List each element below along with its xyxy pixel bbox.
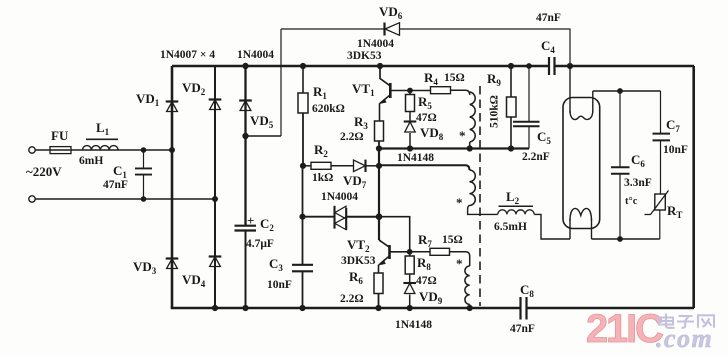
diode VD4 [209,255,222,257]
svg-text:*: * [456,195,463,210]
capacitor C1 [143,150,145,199]
diac trigger diode [333,206,335,229]
svg-text:C7: C7 [666,117,680,134]
svg-text:3DK53: 3DK53 [347,50,382,62]
svg-text:L1: L1 [96,120,110,137]
wire bridge right branch [214,66,216,308]
svg-text:6.5mH: 6.5mH [494,221,527,233]
wire top bypass left [281,28,385,30]
svg-text:47nF: 47nF [103,179,128,191]
resistor R9 [510,66,512,97]
transistor VT1 [377,63,382,68]
svg-text:1N4004: 1N4004 [237,49,274,61]
diode VD7 [354,160,366,172]
svg-text:2.2nF: 2.2nF [522,151,550,163]
rail bottom left [171,307,520,310]
svg-text:6mH: 6mH [79,155,103,167]
transformer winding W2 [465,266,470,304]
svg-text:510kΩ: 510kΩ [489,95,501,128]
svg-text:VD3: VD3 [133,259,157,276]
svg-text:1N4148: 1N4148 [397,152,434,164]
capacitor C5 [528,66,530,122]
svg-text:3.3nF: 3.3nF [624,177,652,189]
diode VD2 [209,98,222,100]
wire DIAC row [303,216,335,218]
rail top main [172,65,548,68]
svg-text:21IC: 21IC [586,307,663,351]
wire x302 vertical (R1/C3 branch) [302,166,304,265]
svg-text:VD2: VD2 [182,80,206,97]
diode VD9 [403,282,416,284]
svg-text:620kΩ: 620kΩ [312,103,345,115]
resistor R5 [409,91,411,95]
transformer core dashed line [479,86,481,306]
resistor R4 [410,90,431,92]
resistor R3 [375,121,384,141]
resistor R7 [407,249,412,254]
svg-text:C1: C1 [113,163,127,180]
rail bottom right [528,307,695,309]
svg-text:1N4004: 1N4004 [357,38,394,50]
svg-text:1kΩ: 1kΩ [312,172,333,184]
svg-text:C4: C4 [541,38,555,55]
diode VD1 [166,100,179,102]
diode VD6 [383,23,385,36]
svg-text:*: * [456,256,463,271]
svg-text:47Ω: 47Ω [416,112,437,124]
wire riser to top bypass [280,29,282,136]
svg-text:R2: R2 [314,142,328,159]
svg-text:47nF: 47nF [510,323,535,335]
svg-text:t°c: t°c [625,196,638,207]
svg-text:4.7μF: 4.7μF [246,238,274,250]
svg-text:VD9: VD9 [419,289,443,306]
lamp tube [563,98,600,229]
node base feedback wire [379,147,529,149]
svg-text:VD4: VD4 [182,272,206,289]
svg-text:47Ω: 47Ω [416,275,437,287]
svg-text:L2: L2 [506,189,520,206]
svg-text:~220V: ~220V [26,164,62,179]
rail top right [555,65,694,68]
wire diac to VT2 base [379,217,410,252]
capacitor C6 [619,91,621,167]
terminal AC top [29,147,35,153]
resistor R1 [302,66,304,93]
capacitor C7 [660,91,662,134]
wire bridge left branch [171,66,174,308]
svg-text:R7: R7 [418,232,432,249]
wire VD5 node to riser [246,135,282,137]
node AC1 to bridge [170,148,175,153]
svg-text:10nF: 10nF [267,279,292,291]
wire midpoint vertical x379 [378,149,380,241]
svg-text:VD7: VD7 [343,173,367,190]
svg-text:R4: R4 [424,70,438,87]
lamp filament top [569,66,571,113]
node VD5 bottom [243,133,248,138]
svg-text:1N4148: 1N4148 [395,319,432,331]
resistor R2 [303,165,311,167]
wire bottom AC input [36,198,216,200]
svg-text:15Ω: 15Ω [442,234,463,246]
inductor L1 [83,146,119,150]
svg-text:2.2Ω: 2.2Ω [340,293,364,305]
svg-text:3DK53: 3DK53 [341,255,376,267]
wire VD5 / C2 branch [244,66,246,226]
wire lamp bottom to C6/RT [592,238,660,240]
svg-text:C5: C5 [537,129,551,146]
capacitor C3 [292,265,313,272]
diode VD3 [166,257,179,259]
svg-text:VD8: VD8 [420,125,444,142]
wire top bypass right [400,29,571,66]
svg-text:R5: R5 [418,94,432,111]
wire top AC input [36,149,173,151]
capacitor C2 [235,225,257,227]
inductor L2 [498,210,534,215]
wire L2 to lamp [534,214,570,239]
resistor R8 [409,252,411,256]
svg-text:15Ω: 15Ω [444,72,465,84]
svg-text:R9: R9 [487,71,501,88]
svg-text:R8: R8 [417,255,431,272]
diode VD8 [404,120,417,122]
thermistor RT [659,210,661,239]
capacitor C8 [521,297,527,320]
wire midpoint to winding M [379,165,469,170]
fuse FU [50,147,71,154]
lamp filament bottom [569,219,571,239]
transistor VT2 [379,240,390,247]
svg-text:47nF: 47nF [536,12,561,24]
svg-text:.com: .com [656,324,713,353]
diode VD5 [239,99,252,101]
svg-text:R3: R3 [354,114,368,131]
watermark chinese dianziwang [659,314,714,328]
svg-text:VD5: VD5 [250,113,274,130]
svg-text:VD6: VD6 [379,4,403,21]
transformer winding M (primary) [469,170,475,205]
svg-text:RT: RT [667,203,682,220]
wire lamp top to C6/C7 [593,90,661,92]
svg-text:1N4007 × 4: 1N4007 × 4 [160,49,215,61]
svg-text:1N4004: 1N4004 [321,191,358,203]
svg-text:VD1: VD1 [136,91,160,108]
svg-text:C3: C3 [269,256,283,273]
svg-text:2.2Ω: 2.2Ω [340,131,364,143]
svg-text:*: * [459,128,466,143]
svg-text:10nF: 10nF [663,144,688,156]
svg-text:C8: C8 [520,282,534,299]
node AC2 to bridge [213,197,218,202]
transformer winding W1 [470,92,476,142]
svg-text:C2: C2 [260,216,274,233]
svg-text:R6: R6 [349,269,363,286]
svg-text:R1: R1 [313,84,327,101]
frame right [692,66,695,308]
resistor R6 [374,273,383,294]
svg-text:FU: FU [51,128,69,143]
svg-text:C6: C6 [631,152,645,169]
svg-text:VT2: VT2 [347,237,370,254]
svg-text:+: + [247,213,254,228]
svg-text:VT1: VT1 [352,81,375,98]
terminal AC bottom [29,196,35,202]
capacitor C4 [549,57,555,75]
